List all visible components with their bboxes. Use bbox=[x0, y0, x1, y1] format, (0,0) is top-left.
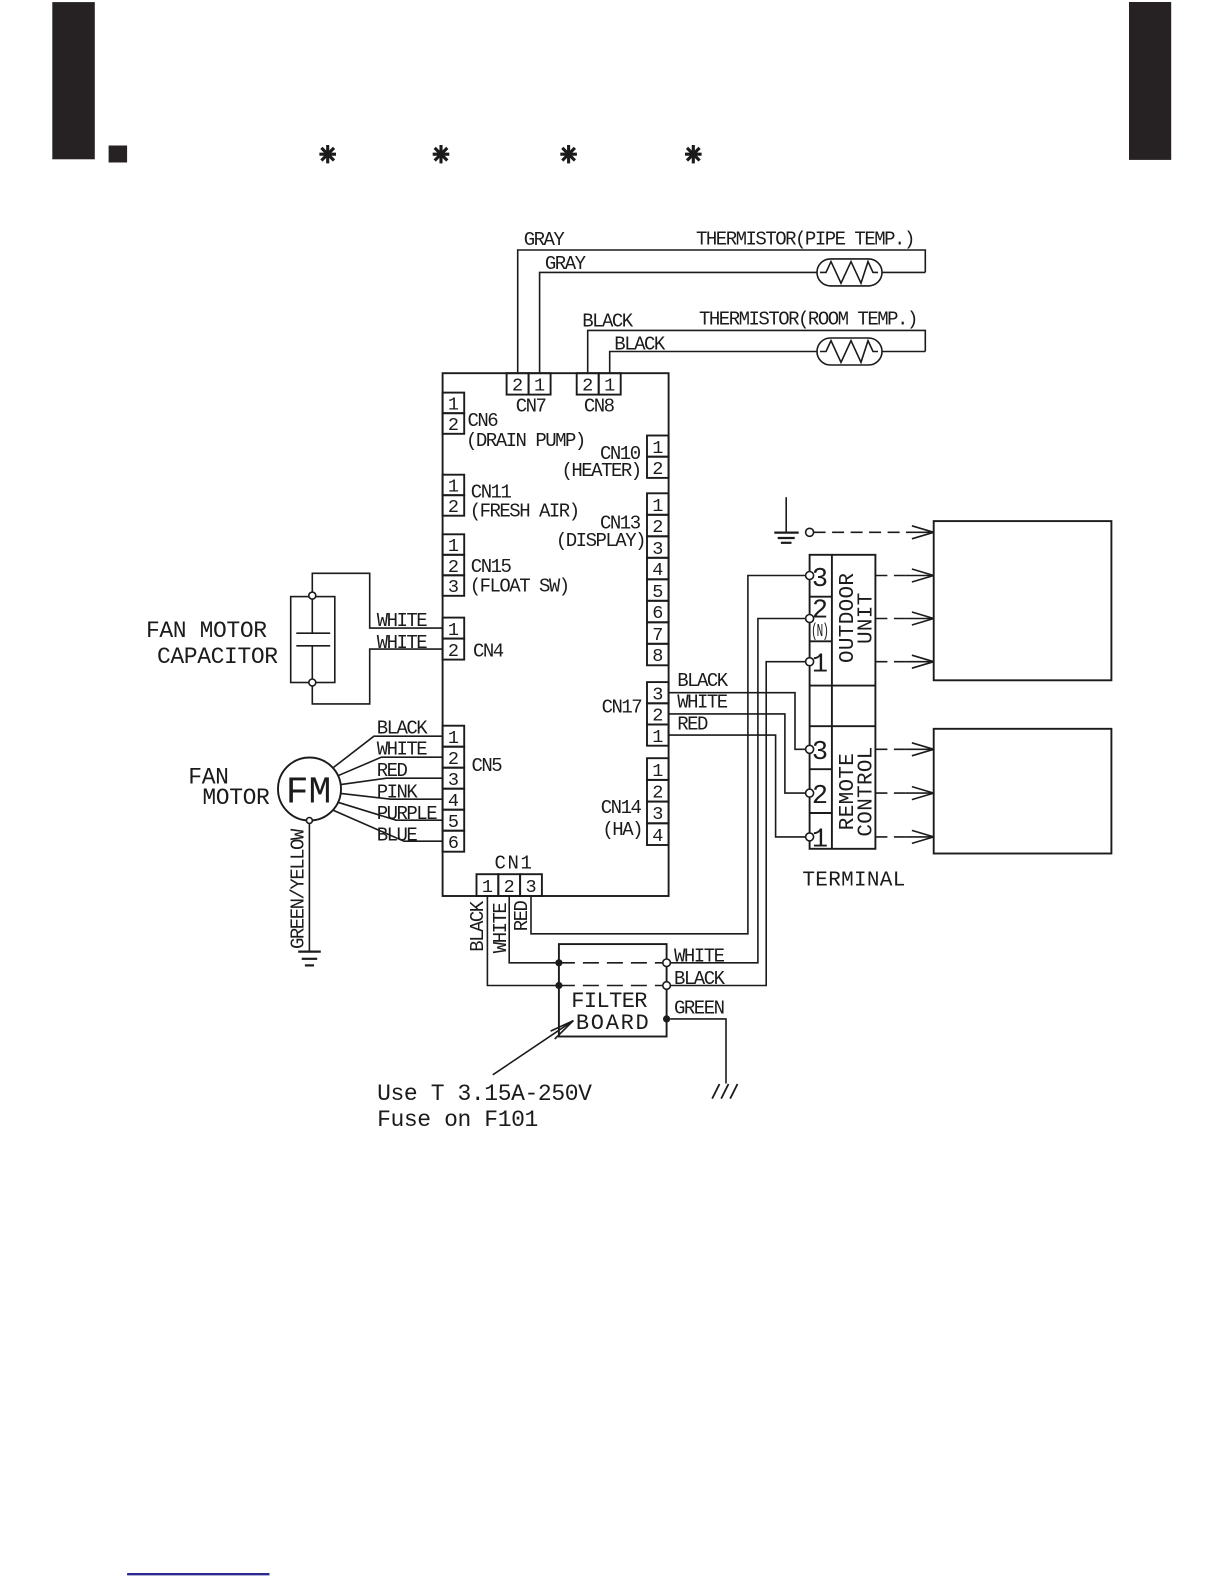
dashed wire terminal 2(N) to outdoor unit box bbox=[875, 618, 906, 620]
svg-text:8: 8 bbox=[652, 646, 663, 667]
fan motor FM circle bbox=[278, 758, 341, 821]
capacitor C1 top terminal circle bbox=[309, 592, 316, 599]
svg-text:TERMINAL: TERMINAL bbox=[802, 870, 905, 893]
dashed wire remote terminal 1 to remote control box bbox=[875, 836, 906, 838]
fan motor ground terminal circle bbox=[306, 818, 312, 824]
connector CN6 pins 1,2 bbox=[443, 393, 465, 434]
svg-text:(DRAIN PUMP): (DRAIN PUMP) bbox=[466, 430, 585, 452]
svg-text:CN7: CN7 bbox=[516, 396, 546, 418]
svg-text:2: 2 bbox=[448, 749, 459, 770]
svg-text:2: 2 bbox=[448, 641, 459, 662]
connector CN5 pins 1-6 bbox=[443, 726, 465, 852]
svg-text:RED: RED bbox=[377, 760, 408, 782]
wire RED fan motor to CN5 bbox=[341, 778, 443, 784]
svg-text:2: 2 bbox=[512, 376, 523, 397]
svg-text:(FLOAT SW): (FLOAT SW) bbox=[470, 576, 569, 598]
svg-text:2: 2 bbox=[504, 877, 515, 898]
svg-text:CN17: CN17 bbox=[602, 697, 642, 719]
junction dot WHITE at filter board left edge bbox=[555, 959, 562, 966]
callout arrow to fuse F101 on filter board bbox=[493, 1021, 574, 1075]
junction dot GREEN at filter board right edge bbox=[663, 1015, 670, 1022]
svg-text:1: 1 bbox=[812, 826, 828, 856]
svg-text:5: 5 bbox=[652, 582, 663, 603]
label REMOTE CONTROL (rotated) bbox=[837, 753, 860, 830]
svg-text:Use T 3.15A-250V: Use T 3.15A-250V bbox=[377, 1081, 592, 1107]
capacitor C1 plates and leads bbox=[296, 599, 330, 679]
svg-text:WHITE: WHITE bbox=[490, 903, 512, 954]
svg-text:THERMISTOR(PIPE TEMP.): THERMISTOR(PIPE TEMP.) bbox=[696, 228, 914, 250]
svg-text:Fuse on F101: Fuse on F101 bbox=[377, 1107, 538, 1133]
wire PURPLE fan motor to CN5 bbox=[338, 802, 443, 820]
svg-text:FAN MOTOR: FAN MOTOR bbox=[146, 618, 267, 644]
svg-text:RED: RED bbox=[677, 714, 708, 736]
wire WHITE dashed through filter board bbox=[559, 962, 667, 964]
connector CN14 pins 1-4 bbox=[647, 758, 669, 845]
svg-text:1: 1 bbox=[534, 376, 545, 397]
svg-text:4: 4 bbox=[652, 560, 663, 581]
svg-text:7: 7 bbox=[652, 625, 663, 646]
connector CN8 pins 2,1 bbox=[577, 373, 621, 394]
svg-text:1: 1 bbox=[448, 477, 459, 498]
svg-text:2: 2 bbox=[448, 415, 459, 436]
dashed wire terminal 3 to outdoor unit box bbox=[875, 575, 906, 577]
earth ground symbol under fan motor bbox=[298, 952, 321, 966]
label RED (rotated) under CN1 bbox=[511, 900, 533, 931]
asterisk marker 4 bbox=[685, 145, 702, 163]
svg-text:(N): (N) bbox=[811, 622, 828, 642]
terminal block vertical divider bbox=[831, 555, 833, 849]
wire WHITE from CN4 pin1 to capacitor top terminal bbox=[312, 573, 442, 628]
wire WHITE filter board to terminal 2(N) bbox=[670, 619, 805, 963]
svg-text:CN14: CN14 bbox=[601, 797, 642, 819]
connector CN17 pins 3,2,1 bbox=[647, 682, 669, 746]
terminal screw circle 3 bbox=[806, 572, 814, 580]
thermistor TH1 (pipe temp.) body bbox=[817, 259, 882, 286]
terminal circle BLACK at filter board right edge bbox=[663, 982, 671, 990]
svg-text:1: 1 bbox=[652, 727, 663, 748]
terminal block cell dividers bbox=[810, 597, 876, 813]
svg-text:CN5: CN5 bbox=[472, 755, 503, 777]
wire BLACK from CN8 pin2 to room thermistor loop bbox=[588, 330, 926, 373]
dashed wire ground to outdoor unit box bbox=[814, 531, 906, 533]
svg-text:3: 3 bbox=[652, 539, 663, 560]
wire WHITE fan motor to CN5 bbox=[338, 757, 443, 776]
connector CN13 pins 1-8 bbox=[647, 493, 669, 665]
svg-text:(HA): (HA) bbox=[602, 819, 642, 841]
page: bottom-left navy rule bbox=[127, 1573, 269, 1575]
svg-text:1: 1 bbox=[448, 536, 459, 557]
svg-text:3: 3 bbox=[448, 577, 459, 598]
dashed wire remote terminal 2 to remote control box bbox=[875, 792, 906, 794]
svg-text:1: 1 bbox=[448, 620, 459, 641]
thermistor TH2 (room temp.) body bbox=[817, 338, 882, 365]
terminal screw circle 3r bbox=[806, 745, 814, 753]
ground terminal circle bbox=[806, 528, 814, 536]
wire GREEN filter board to chassis ground bbox=[670, 1019, 726, 1084]
connector CN1 pins 1,2,3 bbox=[477, 874, 542, 896]
svg-text:2: 2 bbox=[448, 557, 459, 578]
wire BLACK fan motor to CN5 bbox=[333, 736, 443, 768]
svg-text:RED: RED bbox=[511, 900, 533, 931]
wire BLACK CN17 pin3 to remote control terminal 3 bbox=[669, 693, 806, 750]
chassis ground symbol (three strokes) bbox=[712, 1084, 737, 1099]
dashed wire remote terminal 3 to remote control box bbox=[875, 748, 906, 750]
asterisk marker 1 bbox=[319, 145, 336, 163]
svg-text:6: 6 bbox=[652, 603, 663, 624]
svg-text:BLACK: BLACK bbox=[674, 968, 726, 990]
svg-text:FM: FM bbox=[286, 772, 332, 815]
indoor control PCB outline bbox=[443, 373, 669, 896]
svg-text:WHITE: WHITE bbox=[377, 632, 428, 654]
svg-text:2: 2 bbox=[582, 376, 593, 397]
svg-text:3: 3 bbox=[812, 565, 828, 595]
svg-text:PINK: PINK bbox=[377, 782, 419, 804]
svg-text:CN4: CN4 bbox=[473, 640, 504, 662]
svg-text:UNIT: UNIT bbox=[856, 592, 879, 644]
junction dot BLACK at filter board left edge bbox=[555, 982, 562, 989]
svg-text:3: 3 bbox=[448, 770, 459, 791]
svg-text:2: 2 bbox=[448, 497, 459, 518]
wire RED CN17 pin1 to remote control terminal 1 bbox=[669, 735, 806, 837]
connector CN7 pins 2,1 bbox=[507, 373, 551, 394]
label WHITE (rotated) under CN1 bbox=[490, 903, 512, 954]
outdoor unit box bbox=[934, 521, 1112, 680]
svg-text:CN8: CN8 bbox=[584, 396, 615, 418]
svg-text:3: 3 bbox=[652, 804, 663, 825]
svg-text:MOTOR: MOTOR bbox=[202, 785, 270, 811]
connector CN15 pins 1,2,3 bbox=[443, 534, 465, 596]
svg-text:3: 3 bbox=[812, 738, 828, 768]
svg-text:1: 1 bbox=[652, 761, 663, 782]
svg-text:1: 1 bbox=[652, 496, 663, 517]
svg-text:2: 2 bbox=[812, 782, 828, 812]
svg-text:BLUE: BLUE bbox=[377, 825, 418, 847]
svg-text:WHITE: WHITE bbox=[674, 945, 725, 967]
svg-text:1: 1 bbox=[604, 376, 615, 397]
svg-text:BOARD: BOARD bbox=[576, 1011, 651, 1036]
terminal screw circle 2 bbox=[806, 615, 814, 623]
asterisk marker 3 bbox=[560, 145, 577, 163]
svg-text:PURPLE: PURPLE bbox=[377, 803, 438, 825]
svg-text:GRAY: GRAY bbox=[545, 253, 587, 275]
svg-text:CN6: CN6 bbox=[468, 410, 499, 432]
svg-text:GREEN/YELLOW: GREEN/YELLOW bbox=[287, 828, 309, 949]
label BLACK (rotated) under CN1 bbox=[467, 900, 489, 952]
capacitor C1 bottom terminal circle bbox=[309, 679, 316, 686]
wire GRAY from CN7 pin2 to pipe thermistor loop bbox=[518, 250, 926, 373]
wire PINK fan motor to CN5 bbox=[341, 793, 443, 799]
wire GREEN/YELLOW fan motor to earth ground bbox=[308, 824, 310, 952]
svg-text:WHITE: WHITE bbox=[377, 739, 428, 761]
svg-text:WHITE: WHITE bbox=[377, 610, 428, 632]
wire BLUE fan motor to CN5 bbox=[333, 810, 443, 841]
svg-text:(DISPLAY): (DISPLAY) bbox=[556, 530, 645, 552]
svg-text:4: 4 bbox=[448, 791, 459, 812]
connector CN10 pins 1,2 bbox=[647, 436, 669, 478]
wire RED CN1 pin3 to terminal 3 of outdoor unit bbox=[531, 576, 806, 934]
svg-text:1: 1 bbox=[448, 728, 459, 749]
svg-text:THERMISTOR(ROOM TEMP.): THERMISTOR(ROOM TEMP.) bbox=[699, 309, 917, 331]
svg-text:3: 3 bbox=[525, 877, 536, 898]
filter board outline bbox=[559, 944, 667, 1036]
page: top-left black bar bbox=[52, 2, 95, 159]
thermistor TH2 zigzag element bbox=[820, 341, 878, 363]
svg-text:(FRESH AIR): (FRESH AIR) bbox=[470, 501, 579, 523]
terminal circle WHITE at filter board right edge bbox=[663, 959, 671, 967]
wire WHITE CN1 pin2 to filter board bbox=[509, 896, 557, 963]
svg-text:1: 1 bbox=[652, 438, 663, 459]
svg-text:BLACK: BLACK bbox=[677, 670, 729, 692]
terminal block outline bbox=[810, 555, 876, 849]
svg-text:2: 2 bbox=[652, 783, 663, 804]
wire BLACK dashed through filter board bbox=[559, 985, 667, 987]
svg-text:2: 2 bbox=[652, 706, 663, 727]
svg-text:6: 6 bbox=[448, 833, 459, 854]
remote control box bbox=[934, 729, 1112, 854]
svg-text:(HEATER): (HEATER) bbox=[561, 460, 640, 482]
svg-text:BLACK: BLACK bbox=[582, 310, 634, 332]
wire BLACK filter board to terminal 1 bbox=[670, 662, 805, 986]
wire WHITE CN17 pin2 to remote control terminal 2 bbox=[669, 714, 806, 793]
svg-text:CONTROL: CONTROL bbox=[856, 746, 879, 836]
label GREEN/YELLOW (rotated) bbox=[287, 828, 309, 949]
svg-text:CN1: CN1 bbox=[494, 853, 533, 875]
label OUTDOOR UNIT (rotated) bbox=[837, 573, 860, 663]
thermistor TH1 zigzag element bbox=[820, 262, 878, 284]
page: top-left small black square bbox=[109, 146, 128, 163]
terminal screw circle 1r bbox=[806, 833, 814, 841]
asterisk marker 2 bbox=[433, 145, 450, 163]
svg-text:2: 2 bbox=[652, 517, 663, 538]
svg-text:GRAY: GRAY bbox=[524, 229, 566, 251]
svg-text:CAPACITOR: CAPACITOR bbox=[157, 644, 278, 670]
page: top-right black bar bbox=[1129, 2, 1171, 160]
wire BLACK return from room thermistor to CN8 pin1 bbox=[610, 352, 817, 374]
svg-text:BLACK: BLACK bbox=[467, 900, 489, 952]
dashed wire terminal 1 to outdoor unit box bbox=[875, 661, 906, 663]
terminal screw circle 1 bbox=[806, 658, 814, 666]
svg-text:BLACK: BLACK bbox=[614, 333, 666, 355]
svg-text:4: 4 bbox=[652, 826, 663, 847]
svg-text:1: 1 bbox=[448, 395, 459, 416]
svg-text:3: 3 bbox=[652, 684, 663, 705]
capacitor C1 body outline bbox=[291, 597, 335, 683]
connector CN4 pins 1,2 bbox=[443, 618, 465, 660]
svg-text:5: 5 bbox=[448, 812, 459, 833]
connector CN11 pins 1,2 bbox=[443, 475, 465, 516]
svg-text:WHITE: WHITE bbox=[677, 692, 728, 714]
svg-text:1: 1 bbox=[812, 650, 828, 680]
wire BLACK CN1 pin1 to filter board bbox=[487, 896, 557, 986]
terminal screw circle 2r bbox=[806, 789, 814, 797]
svg-text:2: 2 bbox=[652, 459, 663, 480]
svg-text:1: 1 bbox=[482, 877, 493, 898]
wire GRAY return from pipe thermistor to CN7 pin1 bbox=[540, 272, 817, 373]
earth ground symbol above terminal block bbox=[785, 497, 787, 532]
svg-text:GREEN: GREEN bbox=[674, 998, 724, 1020]
svg-text:BLACK: BLACK bbox=[377, 718, 429, 740]
wire WHITE from CN4 pin2 to capacitor bottom terminal bbox=[312, 649, 442, 704]
